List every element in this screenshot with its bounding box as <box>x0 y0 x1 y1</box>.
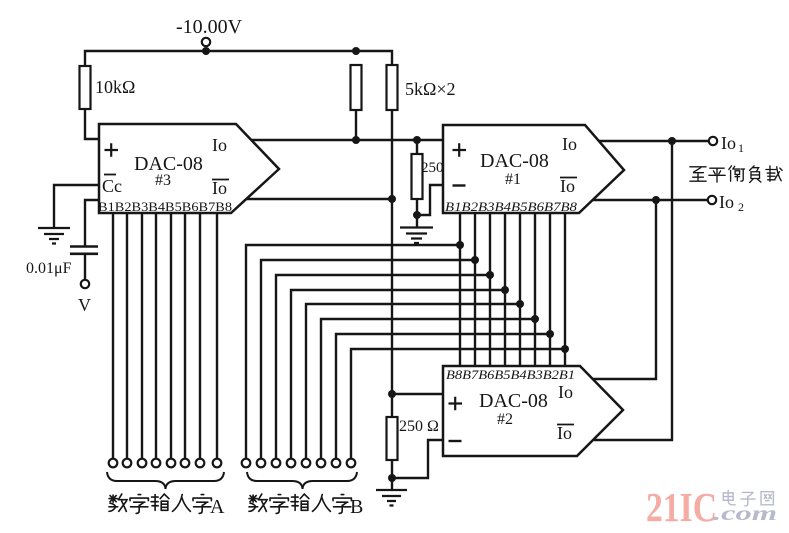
svg-text:B8B7B6B5B4B3B2B1: B8B7B6B5B4B3B2B1 <box>446 368 575 382</box>
terminal B7 <box>332 459 341 468</box>
wire bus 1 word B to pin column 1 <box>246 245 460 458</box>
svg-text:5kΩ×2: 5kΩ×2 <box>405 79 456 99</box>
wire L to DAC1 minus input <box>417 185 443 215</box>
wire word A pin 6 <box>184 213 186 458</box>
junction 250 top <box>413 136 421 144</box>
op-amp U3 Cc overline <box>104 174 116 176</box>
wire pin column 4 DAC1-DAC2 <box>504 213 506 366</box>
label to-balanced-load 至平衡负载 <box>690 166 782 183</box>
junction DAC2 plus node <box>388 390 396 398</box>
wire pin column 2 DAC1-DAC2 <box>474 213 476 366</box>
svg-text:250: 250 <box>421 160 444 176</box>
wire word A pin 5 <box>170 213 172 458</box>
svg-text:Io: Io <box>212 135 227 155</box>
junction 250ohm ground node <box>388 474 396 482</box>
svg-text:1: 1 <box>738 141 744 155</box>
junction 250 ground node <box>413 211 421 219</box>
wire word A pin 1 <box>112 213 114 458</box>
wire DAC3 Vminus to capacitor <box>85 200 99 246</box>
terminal B6 <box>317 459 326 468</box>
wire bus 7 word B to pin column 7 <box>336 334 550 458</box>
op-amp U1 plus <box>453 143 467 157</box>
junction bus7 <box>546 330 554 338</box>
terminal B5 <box>302 459 311 468</box>
wire pin column 5 DAC1-DAC2 <box>519 213 521 366</box>
wire 250 bottom lead to ground node <box>416 199 418 227</box>
op-amp U3 DAC-08 #3 body <box>99 124 279 213</box>
label word B 数字输入字B <box>249 494 351 513</box>
svg-text:Io: Io <box>719 192 734 212</box>
junction Io2 node <box>652 196 660 204</box>
junction bus4 <box>501 286 509 294</box>
svg-text:Cc: Cc <box>102 176 122 196</box>
svg-text:A: A <box>210 496 225 518</box>
wire bus 6 word B to pin column 6 <box>321 319 535 458</box>
svg-text:21IC: 21IC <box>646 484 717 530</box>
svg-text:Io: Io <box>558 382 573 402</box>
brace word A <box>107 472 224 489</box>
terminal A4 <box>152 459 161 468</box>
svg-text:DAC-08: DAC-08 <box>480 150 549 172</box>
svg-text:-10.00V: -10.00V <box>176 16 243 38</box>
brace word B <box>247 472 357 489</box>
svg-text:B1B2B3B4B5B6B7B8: B1B2B3B4B5B6B7B8 <box>98 200 232 214</box>
op-amp U3 Io-bar overline <box>212 179 229 181</box>
wire DAC1 Io to Io1 terminal <box>599 140 709 142</box>
wire 10k bottom lead to DAC3 plus input <box>85 109 99 139</box>
wire pin column 7 DAC1-DAC2 <box>549 213 551 366</box>
label word A 数字输入字A <box>109 494 211 513</box>
wire word A pin 2 <box>126 213 128 458</box>
junction Io1 node <box>668 137 676 145</box>
wire DAC3 Io-bar output to 5k right column <box>247 198 392 200</box>
resistor R3 5kOhm right <box>387 65 398 110</box>
terminal A2 <box>123 459 132 468</box>
svg-text:#2: #2 <box>497 411 513 428</box>
svg-text:B1B2B3B4B5B6B7B8: B1B2B3B4B5B6B7B8 <box>445 200 578 214</box>
wire DAC2 plus input <box>392 393 443 395</box>
svg-text:250 Ω: 250 Ω <box>399 418 439 435</box>
wire pin column 1 DAC1-DAC2 <box>459 213 461 366</box>
logo dianziwang 电子网 <box>723 490 773 506</box>
wire 250ohm bottom lead to ground <box>391 460 393 490</box>
svg-text:DAC-08: DAC-08 <box>479 390 548 412</box>
op-amp U2 plus <box>449 397 463 411</box>
terminal B8 <box>347 459 356 468</box>
op-amp U3 plus <box>105 143 119 157</box>
wire bus 2 word B to pin column 2 <box>261 260 475 458</box>
terminal B4 <box>287 459 296 468</box>
terminal A5 <box>167 459 176 468</box>
junction 5k left top <box>352 47 360 55</box>
wire 250 top lead <box>416 140 418 154</box>
wire pin column 8 DAC1-DAC2 <box>564 213 566 366</box>
junction bus1 <box>456 241 464 249</box>
terminal Io2 <box>708 196 716 204</box>
wire word A pin 4 <box>155 213 157 458</box>
wire Io2 node down to DAC2 Io <box>593 200 656 379</box>
terminal A1 <box>109 459 118 468</box>
wire word A pin 7 <box>199 213 201 458</box>
terminal B2 <box>257 459 266 468</box>
wire L to DAC2 minus input <box>392 440 443 478</box>
terminal B3 <box>272 459 281 468</box>
wire bus 5 word B to pin column 5 <box>306 304 520 458</box>
svg-text:B: B <box>350 496 363 518</box>
svg-text:Io: Io <box>557 423 572 443</box>
op-amp U2 Io-bar overline <box>557 424 574 426</box>
wire long vertical 5k right to DAC2 plus node <box>391 110 393 394</box>
svg-text:10kΩ: 10kΩ <box>95 77 135 97</box>
terminal A8 <box>213 459 222 468</box>
svg-text:#3: #3 <box>155 172 171 189</box>
svg-text:Io: Io <box>212 178 227 198</box>
junction -10V tap <box>202 47 210 55</box>
resistor R1 10kOhm <box>80 66 91 109</box>
terminal A3 <box>138 459 147 468</box>
resistor R2 5kOhm left <box>351 65 362 110</box>
terminal -10.00V <box>202 38 210 46</box>
wire bus 3 word B to pin column 3 <box>276 275 490 458</box>
terminal A7 <box>196 459 205 468</box>
junction bus2 <box>471 256 479 264</box>
svg-text:.com: .com <box>713 503 777 525</box>
resistor R4 250 <box>412 154 423 199</box>
svg-text:2: 2 <box>738 200 744 214</box>
op-amp U2 DAC-08 #2 body <box>443 366 623 456</box>
wire pin column 3 DAC1-DAC2 <box>489 213 491 366</box>
op-amp U1 minus <box>453 184 466 186</box>
wire 5k left bottom lead <box>355 110 357 140</box>
wire pin column 6 DAC1-DAC2 <box>534 213 536 366</box>
wire Cc to ground <box>54 185 99 228</box>
svg-text:Io: Io <box>721 133 736 153</box>
op-amp U1 DAC-08 #1 body <box>443 125 624 213</box>
junction bus6 <box>531 315 539 323</box>
junction Io-bar 5k right <box>388 195 396 203</box>
op-amp U2 minus <box>449 440 462 442</box>
wire 250ohm top lead <box>391 394 393 417</box>
wire word A pin 3 <box>141 213 143 458</box>
op-amp U1 Io-bar overline <box>560 177 577 179</box>
junction bus8 <box>561 345 569 353</box>
terminal V <box>81 280 89 288</box>
ground G3 250ohm <box>376 490 407 506</box>
svg-text:#1: #1 <box>505 171 521 188</box>
terminal B1 <box>242 459 251 468</box>
wire DAC1 Io-bar to Io2 terminal <box>593 199 708 201</box>
wire DAC3 Io output to DAC1 plus input <box>251 139 443 141</box>
svg-text:V: V <box>78 295 91 315</box>
resistor R5 250Ohm <box>387 417 398 460</box>
wire Io1 node down to DAC2 Io-bar <box>594 141 672 440</box>
junction bus3 <box>486 271 494 279</box>
svg-text:Io: Io <box>562 134 577 154</box>
terminal Io1 <box>709 137 717 145</box>
ground G1 Cc <box>38 228 70 244</box>
wire -10V top rail <box>85 51 392 66</box>
capacitor C1 0.01uF <box>70 247 98 254</box>
wire bus 8 word B to pin column 8 <box>351 349 565 458</box>
svg-text:Io: Io <box>560 176 575 196</box>
junction 5k left bottom <box>352 136 360 144</box>
terminal A6 <box>181 459 190 468</box>
wire bus 4 word B to pin column 4 <box>291 290 505 458</box>
wire word A pin 8 <box>216 213 218 458</box>
junction bus5 <box>516 300 524 308</box>
svg-text:0.01μF: 0.01μF <box>26 260 72 277</box>
ground G2 250 <box>400 228 433 244</box>
wire capacitor to V terminal <box>84 254 86 280</box>
